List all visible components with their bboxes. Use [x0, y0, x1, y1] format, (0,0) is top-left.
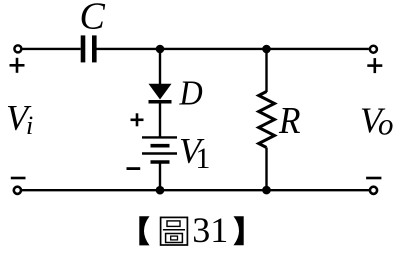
- battery V1 plate 4 (short negative): [151, 160, 170, 164]
- battery V1 minus sign: [127, 167, 141, 170]
- diode D cathode bar: [149, 100, 172, 104]
- capacitor C: [83, 35, 94, 62]
- battery V1 plate 2 (short negative): [151, 144, 170, 148]
- diode D triangle: [149, 84, 172, 100]
- caption CJK character tu middle horizontal stroke: [163, 229, 185, 231]
- caption CJK character tu (figure) outer box: [161, 217, 188, 245]
- bottom wire (BL terminal to BR terminal): [22, 189, 369, 191]
- plus sign at input top: [10, 58, 25, 73]
- node B (top of resistor branch): [262, 45, 271, 54]
- caption CJK character tu bottom inner box: [171, 236, 178, 240]
- svg-text:o: o: [378, 107, 394, 142]
- caption CJK character tu top small box: [167, 221, 180, 227]
- label V1: [179, 131, 210, 175]
- label Vo (output voltage): [360, 100, 394, 142]
- svg-text:1: 1: [195, 142, 210, 175]
- wire top (node A to node B): [160, 48, 267, 50]
- node C (bottom of diode branch): [156, 186, 165, 195]
- wire diode cathode to battery: [159, 104, 161, 138]
- wire resistor top (node B down to zigzag): [265, 49, 267, 92]
- terminal BL (input -): [14, 187, 21, 194]
- caption CJK character tu bottom outer box: [166, 234, 183, 243]
- terminal BR (output -): [370, 187, 377, 194]
- battery V1 plate 3 (long positive): [142, 152, 177, 154]
- label Vi (input voltage): [6, 97, 33, 140]
- resistor R zigzag: [259, 92, 275, 148]
- wire top-right (node B to output terminal): [267, 48, 369, 50]
- wire top-middle (capacitor to node A): [96, 48, 160, 50]
- svg-text:D: D: [179, 73, 203, 112]
- minus sign at input bottom: [11, 177, 26, 180]
- wire diode anode (node A down to diode): [159, 49, 161, 85]
- battery V1 plate 1 (long positive): [142, 136, 177, 138]
- caption left lenticular bracket: [139, 216, 149, 245]
- wire battery to node C: [159, 162, 161, 190]
- svg-text:i: i: [26, 111, 33, 140]
- battery V1 plus sign: [131, 113, 144, 126]
- terminal TR (output +): [370, 46, 377, 53]
- svg-text:31: 31: [192, 210, 228, 250]
- svg-text:C: C: [80, 0, 106, 38]
- svg-text:R: R: [278, 100, 300, 142]
- node D (bottom of resistor branch): [262, 186, 271, 195]
- wire top-left (terminal to capacitor): [22, 48, 80, 50]
- minus sign at output bottom: [366, 177, 381, 180]
- node A (top of diode branch): [156, 45, 165, 54]
- wire resistor bottom (zigzag to node D): [265, 148, 267, 191]
- caption right lenticular bracket: [234, 216, 244, 245]
- terminal TL (input +): [14, 45, 21, 52]
- plus sign at output top: [367, 58, 382, 73]
